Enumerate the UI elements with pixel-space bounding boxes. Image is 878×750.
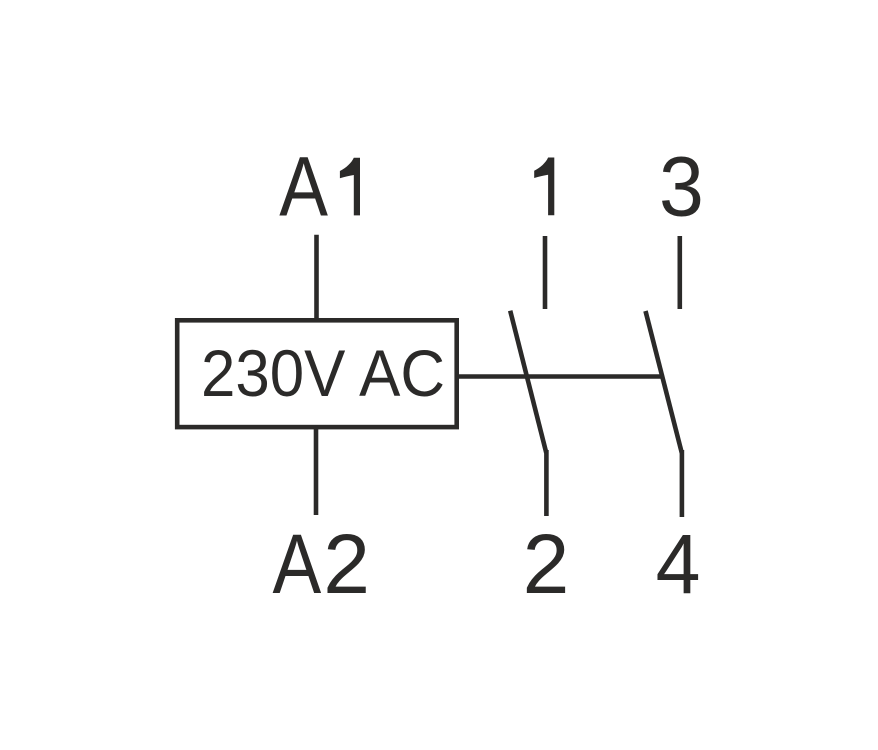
terminal label A2	[273, 517, 371, 611]
svg-text:2: 2	[523, 517, 570, 611]
wire terminal 1	[543, 236, 548, 309]
terminal label 1	[534, 158, 554, 216]
wire terminal 3	[677, 236, 682, 309]
terminal label 3	[659, 140, 704, 234]
svg-text:4: 4	[656, 518, 701, 612]
svg-text:2: 2	[323, 517, 370, 611]
terminal label 4	[656, 518, 701, 612]
contact blade 1-2	[510, 311, 546, 453]
svg-text:A: A	[273, 517, 322, 611]
wire terminal 2	[544, 450, 549, 516]
wire A1 to coil	[314, 235, 319, 320]
svg-text:230V AC: 230V AC	[201, 336, 445, 410]
coil K1 box	[177, 320, 457, 427]
terminal label A1	[279, 140, 360, 234]
contact blade 3-4	[646, 311, 682, 453]
wire terminal 4	[680, 450, 685, 517]
svg-text:A: A	[279, 140, 328, 234]
mechanical linkage wire coil to contacts	[459, 374, 662, 379]
coil value label 230V AC	[201, 336, 445, 410]
wire coil to A2	[314, 427, 319, 515]
svg-text:3: 3	[659, 140, 704, 234]
